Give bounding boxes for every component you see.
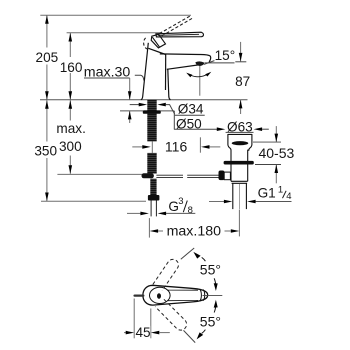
svg-text:max.30: max.30 [84,65,131,81]
svg-text:G1: G1 [258,186,276,201]
dashed handle at +55deg [153,259,179,290]
svg-text:300: 300 [59,139,82,154]
supply nut [148,195,160,201]
svg-text:116: 116 [165,139,188,155]
threaded shank lower [147,153,156,174]
spout swivel arc arrows [189,74,208,77]
wire: deck bottom line [120,110,174,112]
label Ø34 underline [175,114,205,116]
rod clamp screw [219,171,225,181]
svg-text:4: 4 [286,191,291,202]
threaded tail below junction [150,179,156,195]
svg-text:3: 3 [178,196,183,207]
wire: centerline right of lever [203,294,223,296]
dashed handle at -55deg [155,299,186,330]
drain seal nut [224,161,254,165]
svg-text:40-53: 40-53 [258,145,294,161]
dimension 116 [132,146,142,148]
dimension max.300 line [69,100,71,174]
drain plug top [232,141,249,145]
label Ø50 underline merging into Ø63 left arrow [173,111,175,129]
dimension 45 [133,299,135,339]
dimension 40-53 [275,126,277,142]
svg-text:55°: 55° [200,314,221,330]
drain tailpipe [232,183,234,209]
svg-text:Ø34: Ø34 [178,102,204,117]
svg-text:1: 1 [278,184,283,195]
handle tip ridges [200,289,202,301]
dimension 205 line [46,15,48,99]
wire: handle-top reference line [67,32,161,34]
faucet handle lever [156,32,204,37]
svg-text:350: 350 [34,143,57,158]
dimension G3/8 arrows [127,212,141,214]
wire: outlet level extension [235,61,246,63]
wire: deck top line [40,99,248,101]
dimension Ø63 arrows [217,127,262,131]
threaded shank upper [147,100,156,142]
arc upper (55deg) [202,257,206,261]
dashed raised handle [159,16,192,36]
dimension max.180 [148,218,150,238]
handle outer capsule [143,285,208,305]
svg-text:160: 160 [60,60,83,75]
dimension 87 line [240,42,242,62]
drain lower body [231,165,248,184]
dashed handle back arc [144,38,147,49]
drain flange [228,134,252,161]
svg-text:45: 45 [135,325,150,340]
55deg radial extension top [181,248,194,259]
handle inner taper lines [168,289,198,291]
wire: 350 baseline [41,200,146,202]
wire: top reference line (handle raised level) [40,14,191,16]
faucet aerator [195,61,204,66]
svg-text:205: 205 [36,50,59,65]
55deg radial extension bottom [184,330,196,342]
handle dot marker [157,293,161,299]
wire: max.300 level line [57,173,146,175]
dimension 350 line [46,100,48,201]
svg-text:55°: 55° [200,262,221,278]
svg-text:8: 8 [188,205,193,216]
rod joint block [224,172,230,180]
supply pipe [150,201,152,217]
shank locking washer [143,110,161,113]
svg-text:87: 87 [235,74,250,89]
handle inner contour [150,287,171,303]
wire: 15deg horizontal reference [205,62,235,64]
faucet handle pivot [151,34,165,48]
svg-text:Ø63: Ø63 [227,120,253,135]
label max.30 underline and leader [84,77,130,79]
horizontal pop-up rod [156,175,219,177]
drain axis line [239,184,241,209]
dimension G1 1/4 arrows [209,201,224,203]
arc lower (55deg) [202,330,206,334]
dimension 160 line [69,33,71,100]
svg-text:Ø50: Ø50 [176,116,202,131]
svg-text:max.180: max.180 [167,224,222,240]
label max.180 [165,223,225,238]
dimension max.30 line [129,78,131,100]
pop-up rod (top view) [135,294,144,296]
svg-text:15°: 15° [215,48,236,63]
dimension Ø34 arrows [130,104,139,106]
svg-text:max.: max. [56,121,85,136]
pop-up rod junction [142,173,154,178]
faucet body outline [141,43,211,100]
wire: 15deg slanted reference [204,61,215,65]
wire: aerator axis extension [199,64,201,96]
